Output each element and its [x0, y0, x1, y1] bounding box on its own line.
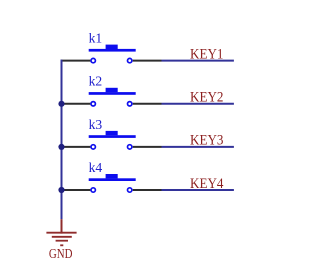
svg-text:k2: k2 — [89, 75, 103, 90]
svg-text:KEY1: KEY1 — [190, 46, 224, 62]
svg-text:KEY2: KEY2 — [190, 90, 224, 106]
svg-text:k3: k3 — [89, 118, 103, 133]
svg-text:k1: k1 — [89, 32, 103, 47]
svg-text:KEY4: KEY4 — [190, 176, 224, 192]
svg-text:KEY3: KEY3 — [190, 133, 224, 149]
svg-text:GND: GND — [49, 247, 73, 262]
svg-text:k4: k4 — [89, 161, 103, 176]
